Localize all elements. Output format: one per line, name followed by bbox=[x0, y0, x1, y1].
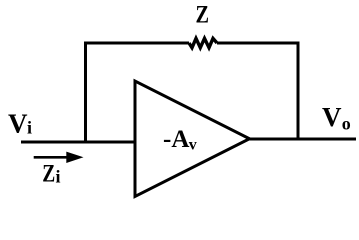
wire: feedback right vertical segment down to output node bbox=[297, 42, 300, 141]
svg-text:-A: -A bbox=[163, 126, 189, 153]
wire: feedback top-right horizontal segment bbox=[217, 42, 300, 45]
wire: feedback left vertical segment bbox=[84, 42, 87, 144]
svg-text:i: i bbox=[56, 167, 61, 187]
wire: input wire from Vi to amplifier input bbox=[21, 141, 134, 144]
arrow: Zi input impedance direction arrow bbox=[34, 156, 70, 159]
svg-text:i: i bbox=[27, 118, 32, 138]
svg-text:Z: Z bbox=[42, 161, 55, 188]
svg-text:Z: Z bbox=[196, 2, 210, 29]
svg-text:o: o bbox=[342, 114, 351, 134]
wire: feedback top-left horizontal segment bbox=[84, 42, 189, 45]
resistor Z (feedback impedance zigzag) bbox=[189, 38, 217, 47]
wire: output wire to Vo bbox=[249, 138, 356, 141]
svg-text:v: v bbox=[189, 137, 197, 154]
svg-text:V: V bbox=[8, 109, 28, 139]
op-amp U1: inverting amplifier triangle bbox=[135, 81, 250, 197]
svg-text:V: V bbox=[322, 102, 342, 132]
